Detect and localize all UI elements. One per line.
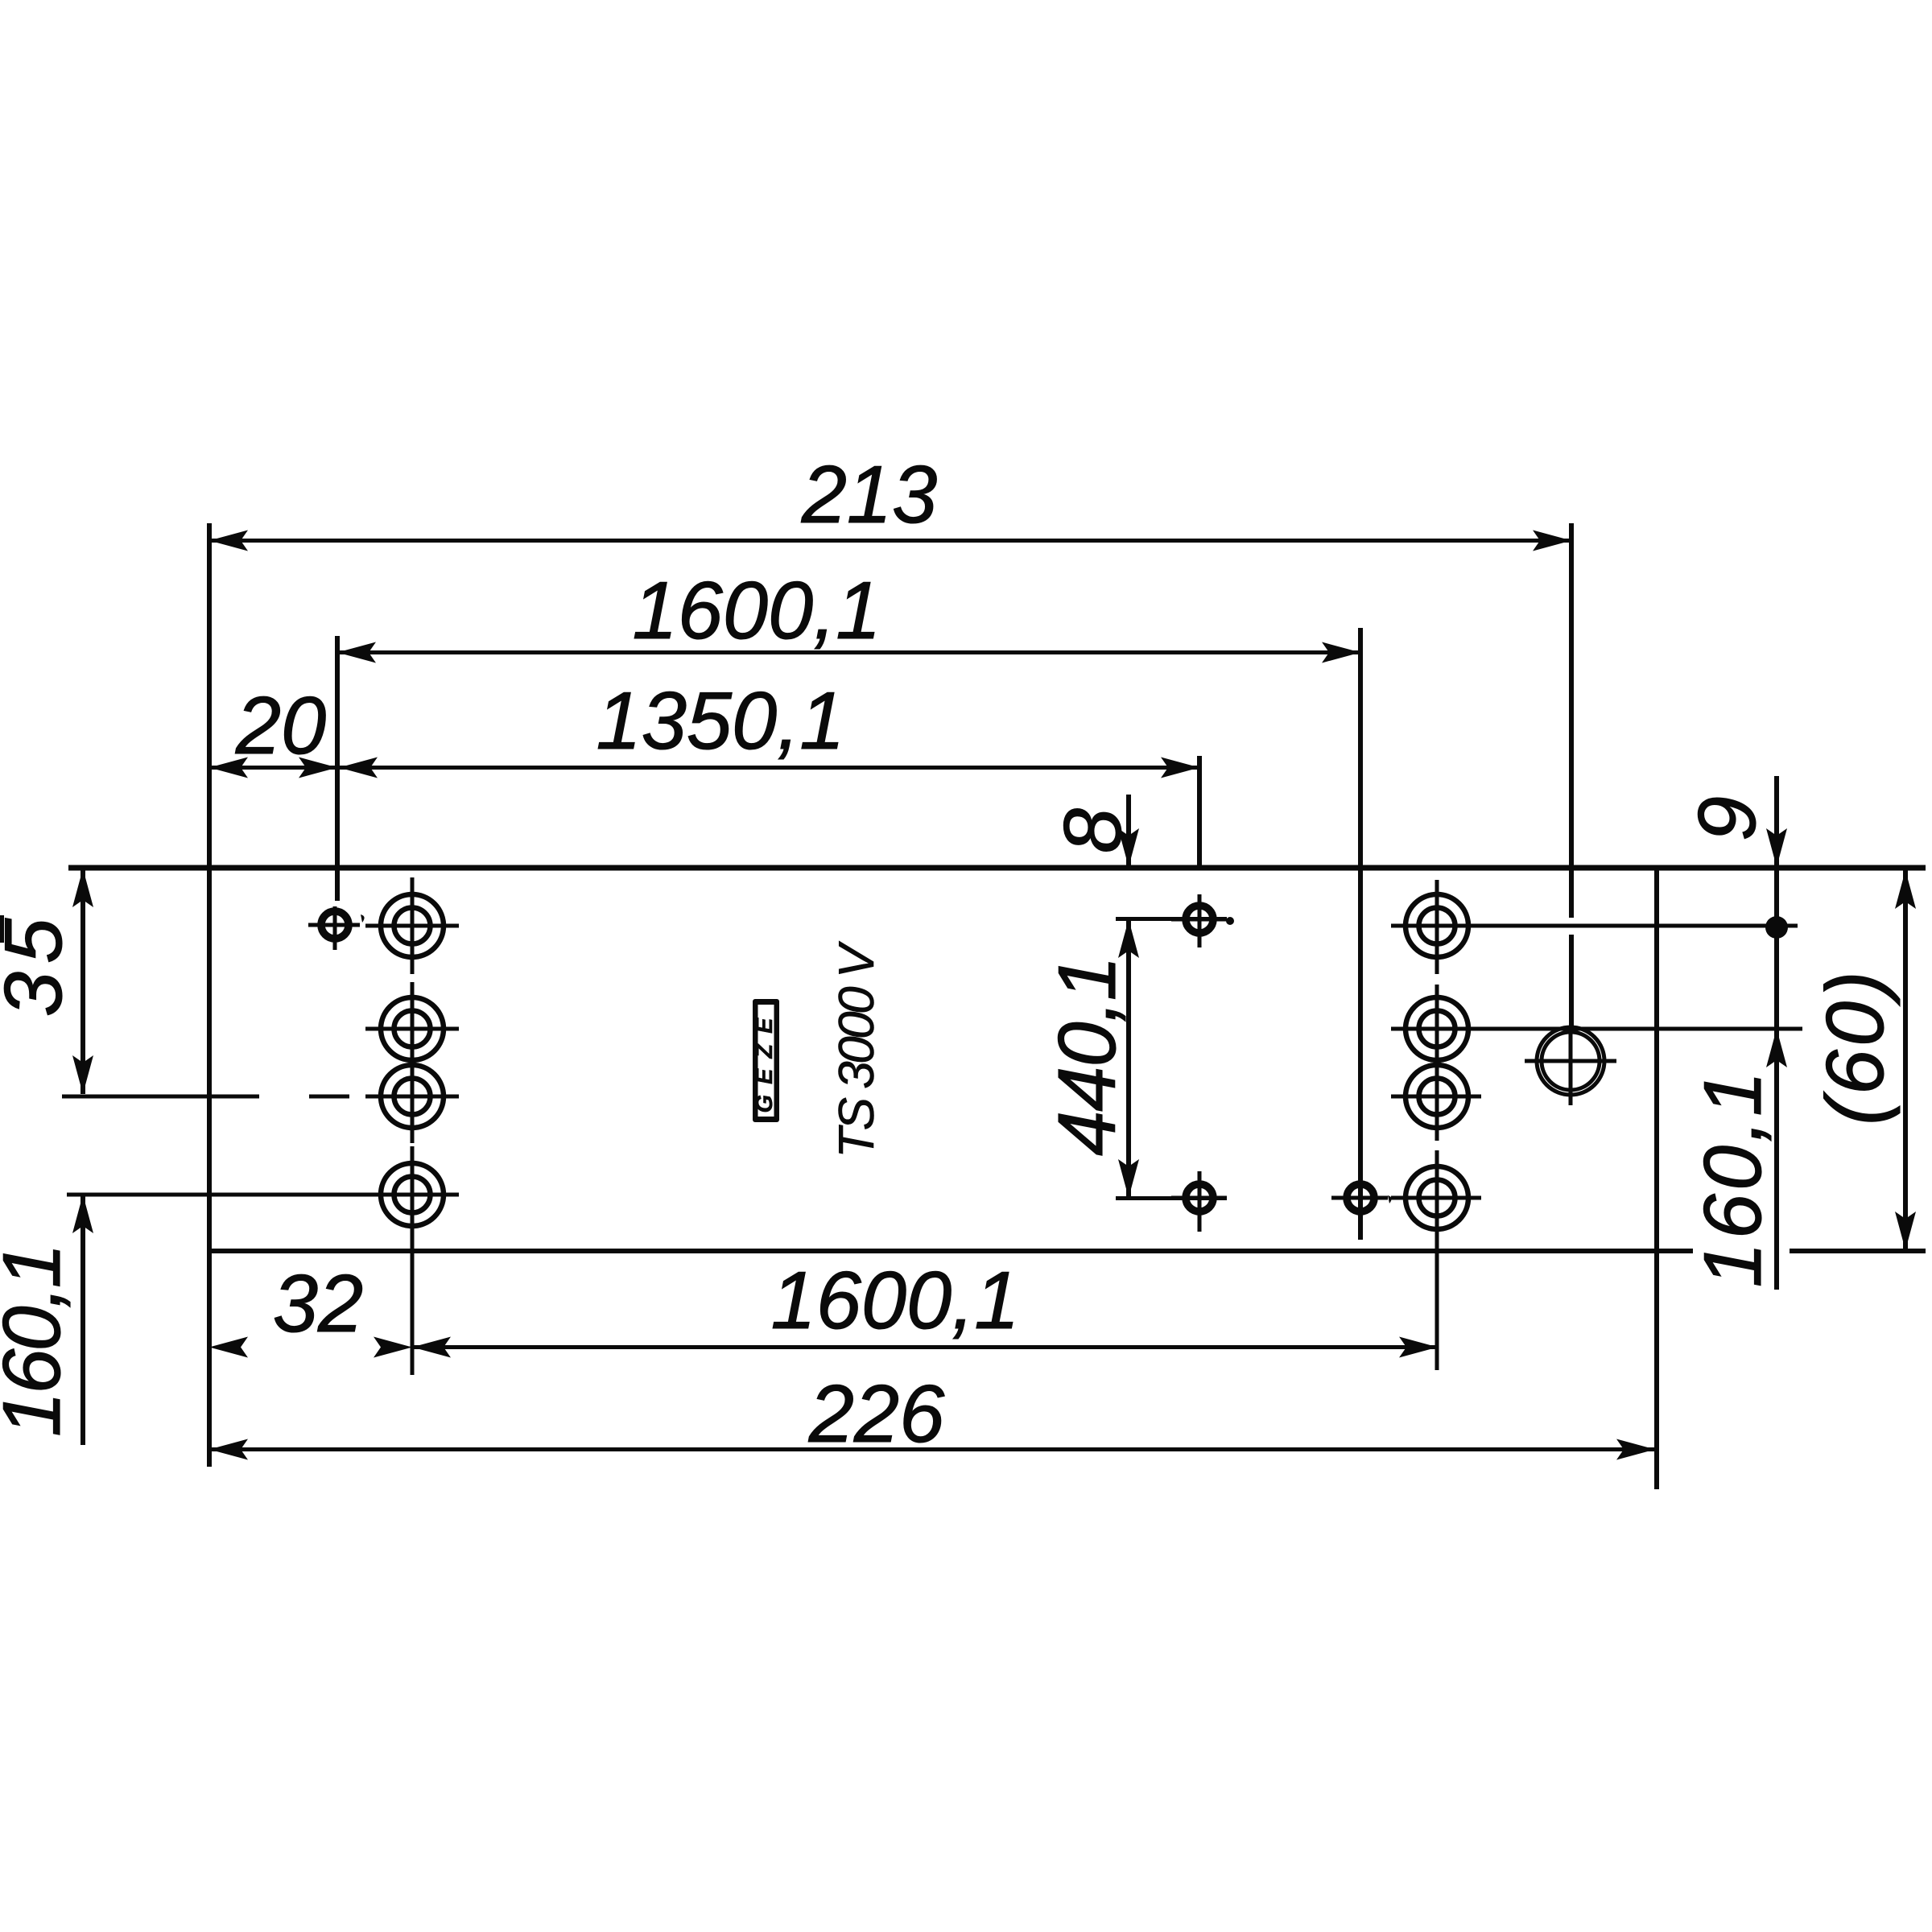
dimension 20 left arrow — [209, 758, 248, 778]
dimension 213 line — [209, 539, 1571, 543]
dimension 440,1 reference tick row4 — [1116, 1196, 1227, 1200]
svg-text:440,1: 440,1 — [1042, 956, 1133, 1156]
dimension 32 right arrow — [374, 1337, 412, 1358]
svg-text:160,1: 160,1 — [1688, 1068, 1778, 1288]
svg-text:20: 20 — [235, 681, 326, 771]
svg-text:213: 213 — [801, 450, 938, 540]
dimension 1600,1 top line — [337, 650, 1360, 654]
dimension 226 left arrow — [209, 1439, 248, 1460]
dimension 1600,1 top left arrow — [337, 642, 376, 663]
dimension 440,1 down arrow — [1118, 1159, 1139, 1198]
small pilot hole S4 — [1331, 1173, 1392, 1238]
svg-text:35: 35 — [0, 910, 79, 1017]
stray mark left edge — [0, 915, 4, 943]
plate bottom edge — [208, 1249, 1693, 1253]
svg-text:32: 32 — [273, 1259, 363, 1349]
dimension (60) down arrow — [1895, 1212, 1916, 1250]
dimension (60) up arrow — [1895, 870, 1916, 909]
dimension 160,1 left line x103 — [80, 1195, 85, 1445]
svg-text:TS 3000 V: TS 3000 V — [829, 940, 885, 1158]
dimension 8 reference tick row1 — [1116, 917, 1227, 921]
svg-text:1600,1: 1600,1 — [771, 1256, 1020, 1346]
svg-text:160,1: 160,1 — [0, 1245, 77, 1437]
mounting hole C4 — [365, 1146, 459, 1375]
row1 reference line right with spindle dot — [1391, 924, 1798, 928]
dimension 440,1 line x1402 — [1126, 919, 1131, 1198]
extension continuation to spindle — [1569, 935, 1574, 1031]
dimension 1350,1 extension line x1490 — [1197, 756, 1202, 867]
mounting hole C1 — [365, 877, 459, 974]
dimension 1600,1 bottom line — [412, 1345, 1438, 1349]
dimension 160,1 left up arrow — [72, 1195, 93, 1233]
extension line x419 — [335, 636, 340, 901]
mounting hole C8 — [1391, 1150, 1481, 1370]
GEZE logo — [752, 999, 779, 1122]
dimension 35 down arrow — [72, 1055, 93, 1094]
dimension 9 down arrow — [1766, 828, 1787, 867]
dimension 213 right extension line x1952 — [1569, 523, 1574, 918]
dimension 8 upper tail with down arrow — [1126, 795, 1131, 867]
dimension (60) line x2367 — [1903, 869, 1908, 1250]
centerline row3 left segment b — [309, 1095, 349, 1099]
dimension 1600,1 bottom left arrow — [412, 1337, 451, 1358]
row4 reference line left — [67, 1193, 365, 1197]
mounting hole C3 — [365, 1065, 459, 1143]
svg-text:1600,1: 1600,1 — [633, 566, 881, 656]
dimension 35 up arrow — [72, 869, 93, 907]
svg-text:(60): (60) — [1810, 968, 1901, 1125]
dimension 1350,1 right arrow — [1161, 758, 1199, 778]
dimension 160,1 right up arrow — [1766, 1029, 1787, 1067]
dimension 226 right arrow — [1616, 1439, 1655, 1460]
dimension 440,1 up arrow — [1118, 919, 1139, 958]
spindle hole — [1525, 1027, 1616, 1105]
svg-text:1350,1: 1350,1 — [597, 676, 845, 766]
svg-text:GEZE: GEZE — [752, 1008, 778, 1113]
dimension 226 line — [209, 1447, 1655, 1451]
small pilot hole S1 — [308, 906, 365, 950]
row2 reference line right — [1391, 1027, 1802, 1031]
dimension 9 line x2207 — [1774, 776, 1779, 1290]
plate top edge — [68, 865, 1926, 871]
centerline row3 left segment a — [62, 1095, 259, 1099]
dimension 1600,1 top right arrow — [1322, 642, 1360, 663]
left extension line x260 — [207, 523, 212, 1467]
dimension 35 line x103 — [80, 869, 85, 1094]
spindle axis dot — [1765, 916, 1788, 939]
mounting hole C6 — [1406, 985, 1468, 1079]
svg-text:226: 226 — [808, 1369, 945, 1459]
small pilot hole S3 — [1171, 1171, 1227, 1232]
svg-text:9: 9 — [1682, 796, 1773, 841]
dimension 213 right arrow — [1533, 530, 1571, 551]
svg-text:8: 8 — [1048, 808, 1138, 853]
dimension 20 line with 1350,1 — [209, 766, 1199, 770]
mounting hole C7 — [1391, 1065, 1481, 1141]
dimension 1350,1 left arrow — [339, 758, 378, 778]
extension line x1690 — [1358, 628, 1363, 1240]
dimension 20 right arrow — [299, 758, 337, 778]
small pilot hole S2 — [1171, 894, 1234, 947]
plate right edge — [1654, 867, 1659, 1489]
mounting hole C5 — [1406, 880, 1468, 974]
dimension 213 left arrow — [209, 530, 248, 551]
dimension 32 left arrow — [209, 1337, 248, 1358]
dimension 1600,1 bottom right arrow — [1399, 1337, 1438, 1358]
bottom edge right extension — [1790, 1249, 1926, 1253]
mounting hole C2 — [365, 982, 459, 1079]
